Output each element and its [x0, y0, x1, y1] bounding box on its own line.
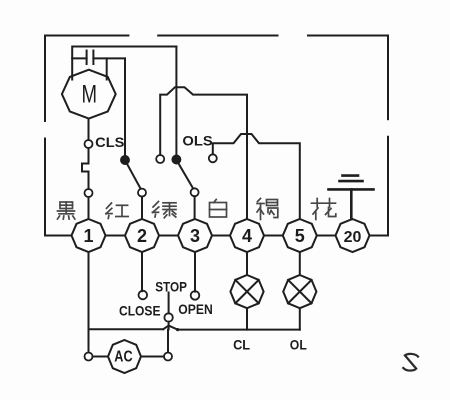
ground symbol [329, 176, 374, 219]
CLS contact circle [138, 189, 146, 197]
CLS switch common pole [121, 156, 129, 164]
capacitor C plates [86, 51, 88, 65]
svg-text:5: 5 [295, 226, 305, 246]
label green 绿 [153, 202, 177, 218]
thermal jog wire [82, 148, 89, 189]
wire OLS right contact to terminal 5 (hop over terminal-4 riser) [213, 134, 300, 219]
label white 白 [210, 200, 227, 218]
wire motor top loop [72, 47, 176, 80]
lamp OL [283, 275, 316, 308]
wire terminal 4-5 [264, 235, 283, 237]
wire motor bottom lead [88, 119, 90, 141]
svg-text:OL: OL [290, 337, 307, 353]
enclosure frame right segment 1 [387, 36, 389, 120]
label flower 花 [312, 199, 336, 220]
label red 红 [106, 203, 128, 219]
enclosure frame top segment 1 [45, 35, 128, 37]
OLS contact circle [191, 188, 199, 196]
svg-text:4: 4 [242, 226, 252, 246]
svg-text:M: M [82, 81, 98, 109]
AC right node circle [164, 353, 172, 361]
label brown 褐 [257, 199, 278, 220]
wire terminal 3-4 [212, 235, 230, 237]
AC right lead [141, 356, 164, 358]
terminal 1 [72, 219, 106, 252]
svg-text:3: 3 [190, 226, 200, 246]
STOP button stem [168, 293, 170, 314]
OLS switch arm [178, 163, 193, 188]
capacitor C leads [72, 57, 86, 59]
STOP common circle [164, 313, 172, 321]
OLS right contact circle [209, 154, 217, 162]
wire top loop to OLS common [175, 47, 177, 156]
thermal contact bottom circle [85, 189, 93, 197]
wire terminal 4 to CL lamp [246, 252, 248, 275]
label black 黑 [58, 202, 75, 219]
wire capacitor to motor right terminal [106, 58, 108, 79]
wire to terminal 1 [88, 197, 90, 219]
terminal 3 [178, 219, 212, 252]
svg-text:OLS: OLS [182, 134, 212, 149]
terminal 2 [125, 219, 159, 252]
wire terminal 3 to OPEN contact [194, 252, 196, 292]
enclosure frame top segment 3 [308, 35, 388, 37]
S revision mark [403, 354, 418, 371]
svg-text:OPEN: OPEN [178, 302, 213, 317]
svg-text:AC: AC [114, 349, 132, 366]
enclosure frame right segment 2 [370, 137, 389, 236]
junction arm left [163, 326, 168, 330]
wire terminal 2-3 [159, 235, 178, 237]
OLS left contact circle [156, 155, 164, 163]
wire terminal 2 to CLOSE contact [141, 252, 143, 291]
svg-text:2: 2 [137, 226, 147, 246]
junction dot [176, 328, 179, 331]
wire to terminal 2 [141, 197, 143, 219]
terminal 5 [283, 219, 317, 252]
AC left node circle [85, 353, 93, 361]
svg-text:CL: CL [233, 337, 250, 353]
AC source [108, 340, 141, 373]
terminal 4 [230, 219, 264, 252]
wire to terminal 3 [194, 196, 196, 219]
wire terminal 1 down to AC [88, 252, 90, 352]
wire CL lamp to bus [246, 308, 248, 329]
svg-text:20: 20 [344, 229, 362, 246]
wire AC node to junction [167, 330, 169, 353]
enclosure frame left segment 2 [45, 139, 72, 236]
wire STOP circle to junction [168, 322, 170, 330]
svg-text:CLOSE: CLOSE [119, 304, 161, 319]
wire bus left (terminal 1 to junction) [89, 328, 164, 330]
wire terminal 5-20 [317, 235, 336, 237]
CLS switch arm [127, 164, 141, 189]
svg-text:1: 1 [83, 226, 93, 246]
enclosure frame top segment 2 [158, 35, 277, 37]
wire OLS left contact to terminal 4 (hop over vertical) [160, 87, 247, 219]
wire bus right (junction to lamps) [178, 329, 300, 331]
svg-text:STOP: STOP [155, 278, 187, 294]
wire terminal 5 to OL lamp [299, 252, 301, 275]
motor M [62, 70, 116, 119]
OLS switch common pole [172, 155, 180, 163]
junction arm right [169, 326, 178, 330]
enclosure frame left segment 1 [44, 36, 46, 122]
terminal 20 [336, 219, 370, 252]
wire terminal 1-2 [106, 235, 126, 237]
wire capacitor to CLS common [124, 58, 126, 155]
AC left lead [93, 356, 109, 358]
svg-text:CLS: CLS [95, 135, 124, 150]
CLOSE contact circle [139, 291, 148, 300]
thermal contact top circle [85, 140, 93, 148]
wire OL lamp to bus [299, 308, 301, 329]
lamp CL [230, 275, 263, 308]
OPEN contact circle [191, 291, 200, 300]
